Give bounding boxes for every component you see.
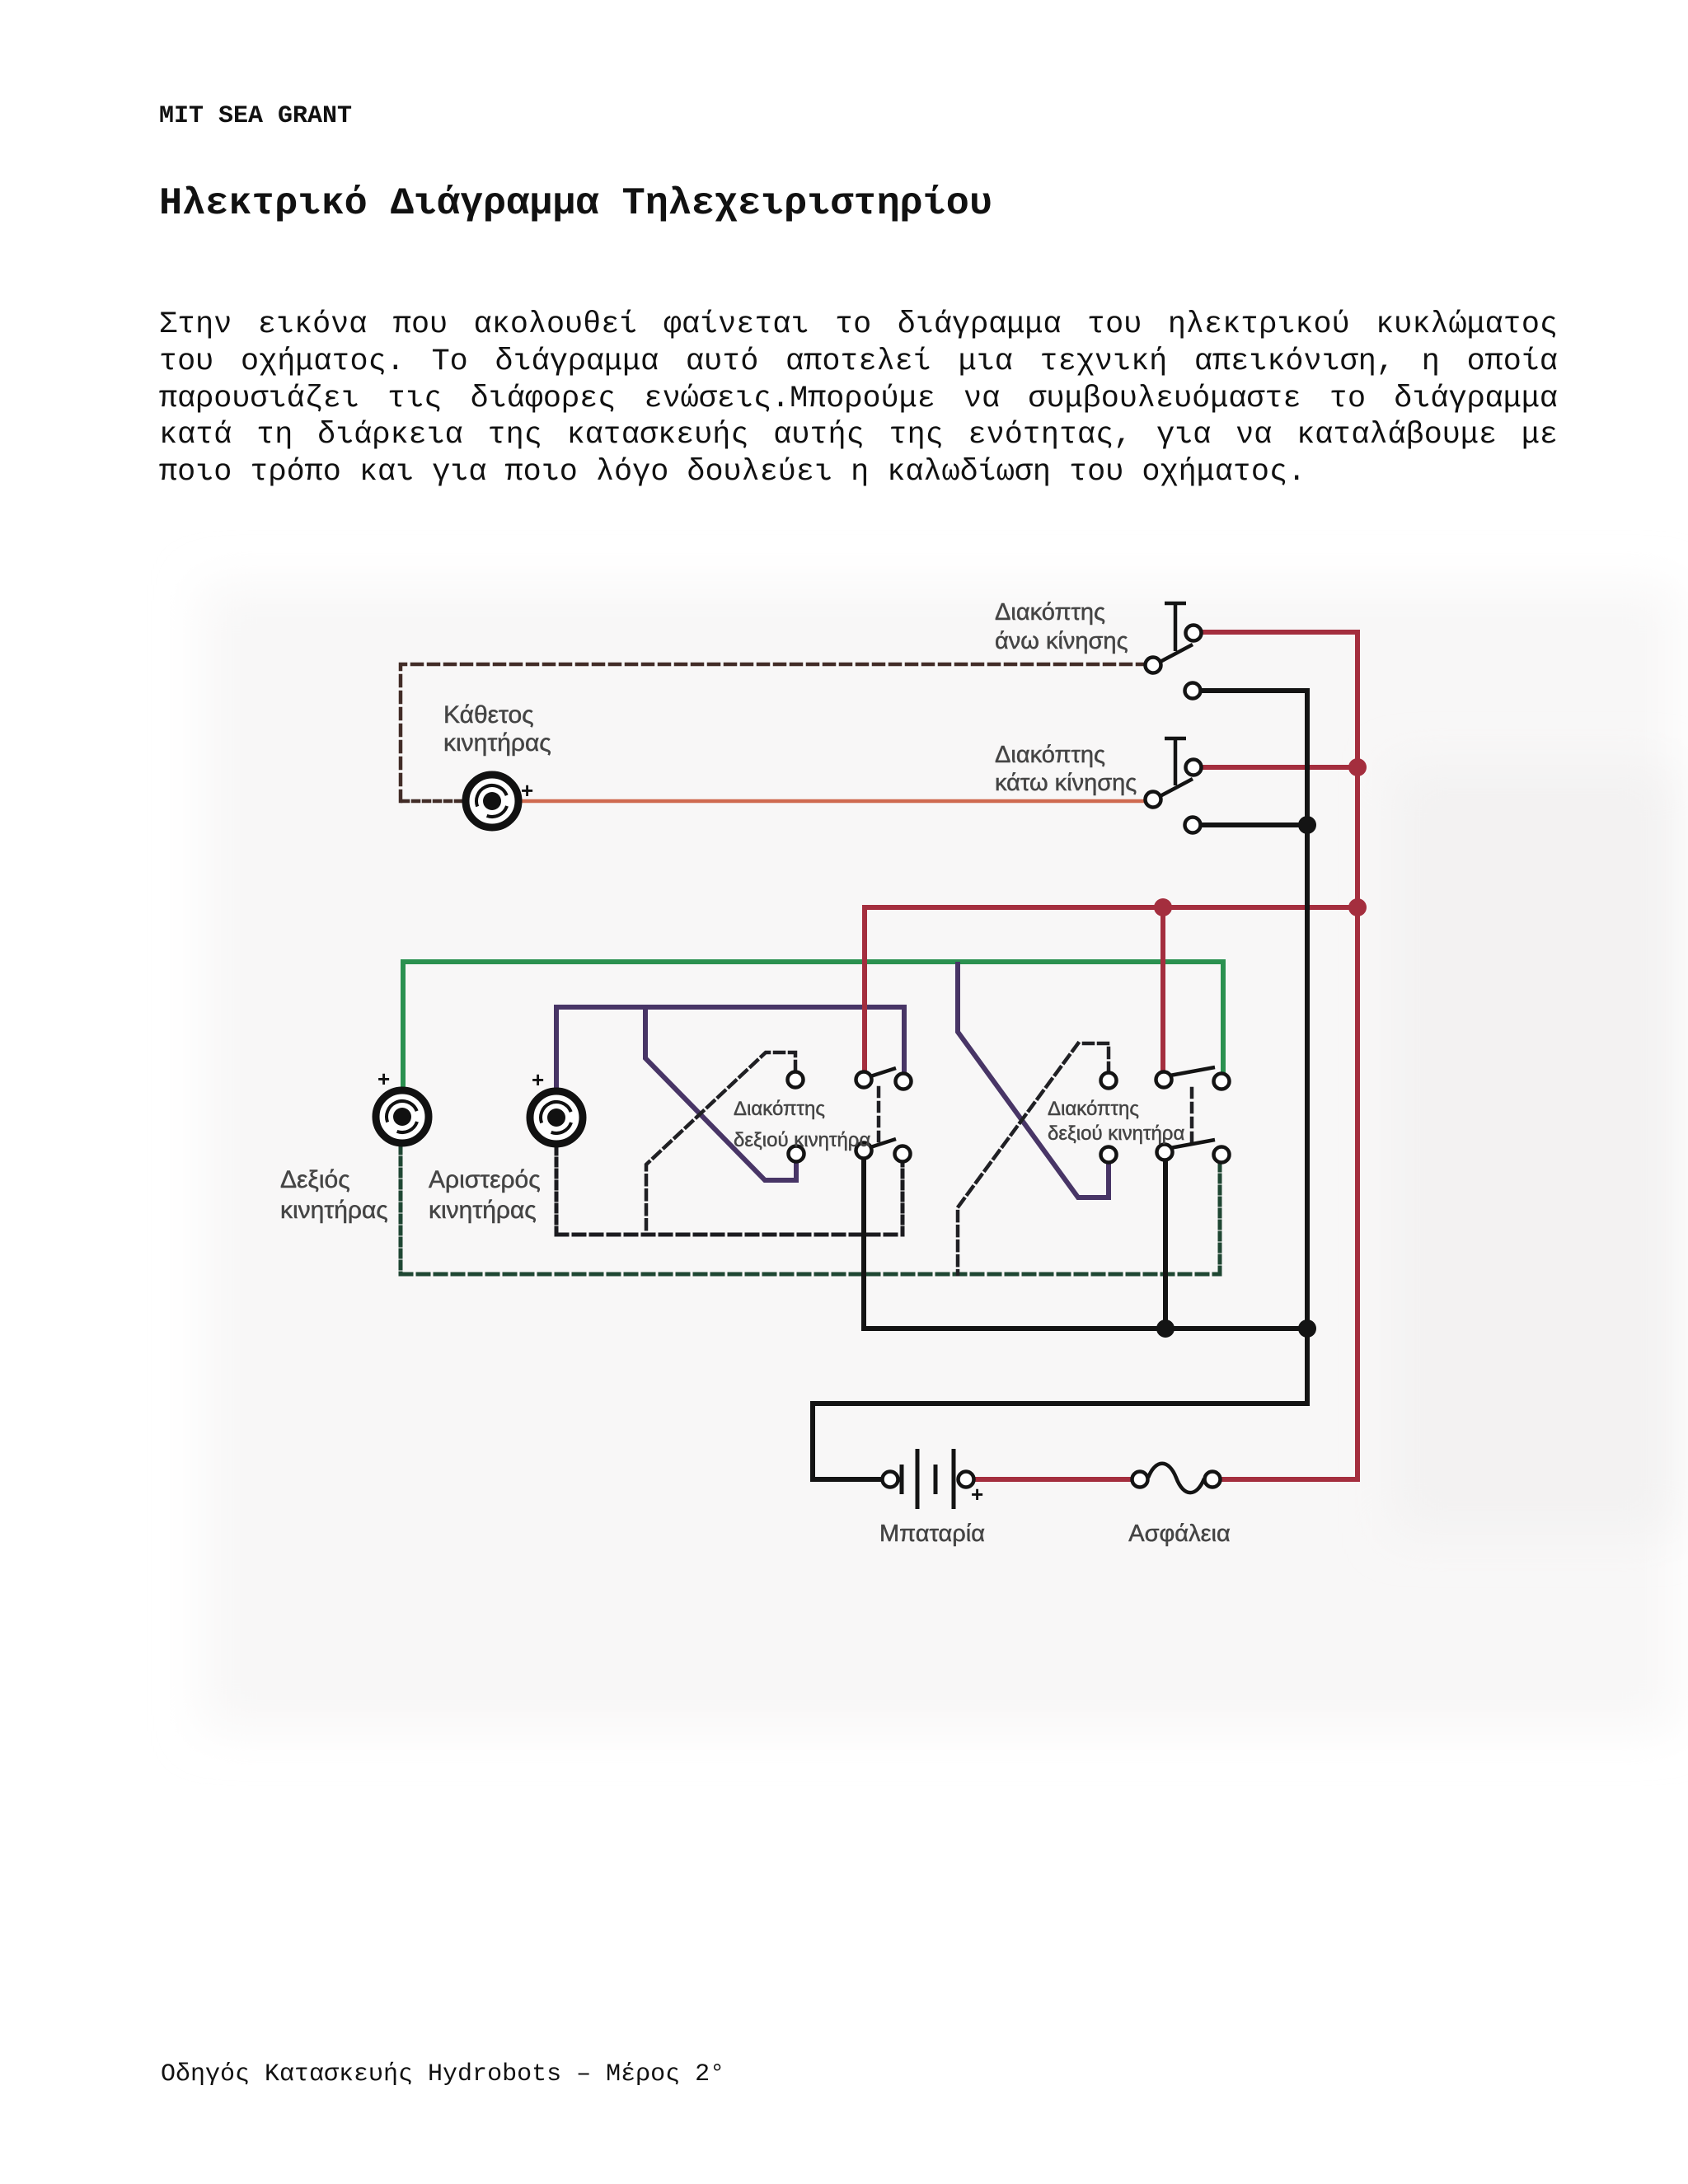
svg-text:Αριστερός: Αριστερός — [429, 1166, 541, 1193]
svg-text:άνω κίνησης: άνω κίνησης — [995, 628, 1128, 654]
svg-text:Διακόπτης: Διακόπτης — [995, 599, 1105, 626]
svg-text:δεξιού κινητήρα: δεξιού κινητήρα — [1048, 1122, 1184, 1145]
svg-text:Διακόπτης: Διακόπτης — [995, 742, 1105, 768]
svg-text:+: + — [521, 778, 533, 803]
svg-text:Ασφάλεια: Ασφάλεια — [1128, 1521, 1230, 1547]
svg-text:δεξιού κινητήρα: δεξιού κινητήρα — [734, 1129, 870, 1151]
svg-text:Μπαταρία: Μπαταρία — [879, 1521, 985, 1547]
svg-text:κάτω κίνησης: κάτω κίνησης — [995, 770, 1137, 796]
svg-text:Διακόπτης: Διακόπτης — [1048, 1098, 1139, 1120]
svg-text:+: + — [971, 1482, 983, 1507]
svg-text:κινητήρας: κινητήρας — [443, 729, 551, 757]
svg-text:Κάθετος: Κάθετος — [443, 701, 534, 729]
svg-text:Διακόπτης: Διακόπτης — [734, 1098, 825, 1120]
svg-text:Δεξιός: Δεξιός — [280, 1166, 350, 1193]
svg-text:+: + — [532, 1067, 544, 1092]
svg-text:κινητήρας: κινητήρας — [429, 1197, 537, 1224]
svg-text:κινητήρας: κινητήρας — [280, 1197, 388, 1224]
svg-text:+: + — [377, 1066, 390, 1091]
